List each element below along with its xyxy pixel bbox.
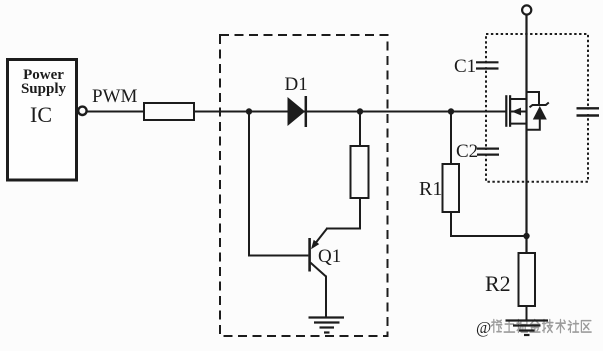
drain stub (510, 98, 526, 100)
body stub with arrow (511, 111, 527, 113)
resistor R1 (443, 164, 460, 212)
svg-text:Q1: Q1 (318, 246, 341, 267)
transistor Q1 (PNP) (249, 112, 327, 318)
wire: drain-source trunk (525, 15, 527, 254)
MOSFET (N-channel) (506, 95, 526, 127)
emitter lead with arrow into base bar (314, 229, 327, 246)
svg-text:D1: D1 (285, 74, 308, 95)
collector lead (310, 263, 326, 277)
wire: R1 bottom to source node (451, 212, 527, 236)
svg-text:IC: IC (30, 102, 52, 127)
node: junction after D1 (357, 108, 363, 114)
wire: R2 to ground (526, 306, 528, 320)
ground (below R2) (506, 321, 549, 336)
capacitor C1 (gate-drain) (476, 62, 499, 68)
watermark (476, 318, 591, 337)
terminal (drain supply, top) (522, 5, 531, 14)
dotted box: MOSFET with parasitics (486, 34, 588, 182)
base wire from left (249, 112, 308, 256)
base bar (308, 238, 311, 272)
wire: gate node down to R1 (450, 112, 452, 165)
body diode of MOSFET (527, 92, 549, 130)
svg-text:Supply: Supply (21, 81, 67, 97)
node: gate node junction (448, 108, 454, 114)
resistor R2 (519, 253, 536, 306)
gate bar (505, 95, 507, 127)
ground (below Q1) (309, 318, 345, 333)
resistor (base pull, unlabeled, vertical) (351, 146, 369, 198)
svg-text:R2: R2 (485, 271, 511, 296)
dashed box: turn-off speed-up network (220, 35, 388, 336)
svg-text:R1: R1 (419, 178, 442, 200)
Power Supply IC box (8, 60, 77, 181)
terminal pin on IC (78, 107, 86, 115)
svg-text:@: @ (476, 318, 491, 337)
capacitor C2 (gate-source) (477, 149, 499, 155)
node: junction after gate resistor (246, 108, 252, 114)
resistor (gate series, unlabeled) (144, 103, 194, 120)
svg-text:PWM: PWM (92, 86, 138, 107)
capacitor (drain-source, unlabeled) (577, 108, 600, 115)
svg-text:C1: C1 (454, 56, 476, 77)
wire PWM output to gate network (87, 111, 506, 113)
wire: base resistor to Q1 emitter (326, 198, 360, 229)
svg-text:C2: C2 (456, 141, 478, 162)
source stub (510, 123, 526, 125)
channel bar (509, 95, 511, 127)
wire: junction after D1 down to base resistor (359, 112, 361, 147)
node: source / R1 / R2 junction (523, 233, 529, 239)
diode D1 (288, 96, 306, 127)
